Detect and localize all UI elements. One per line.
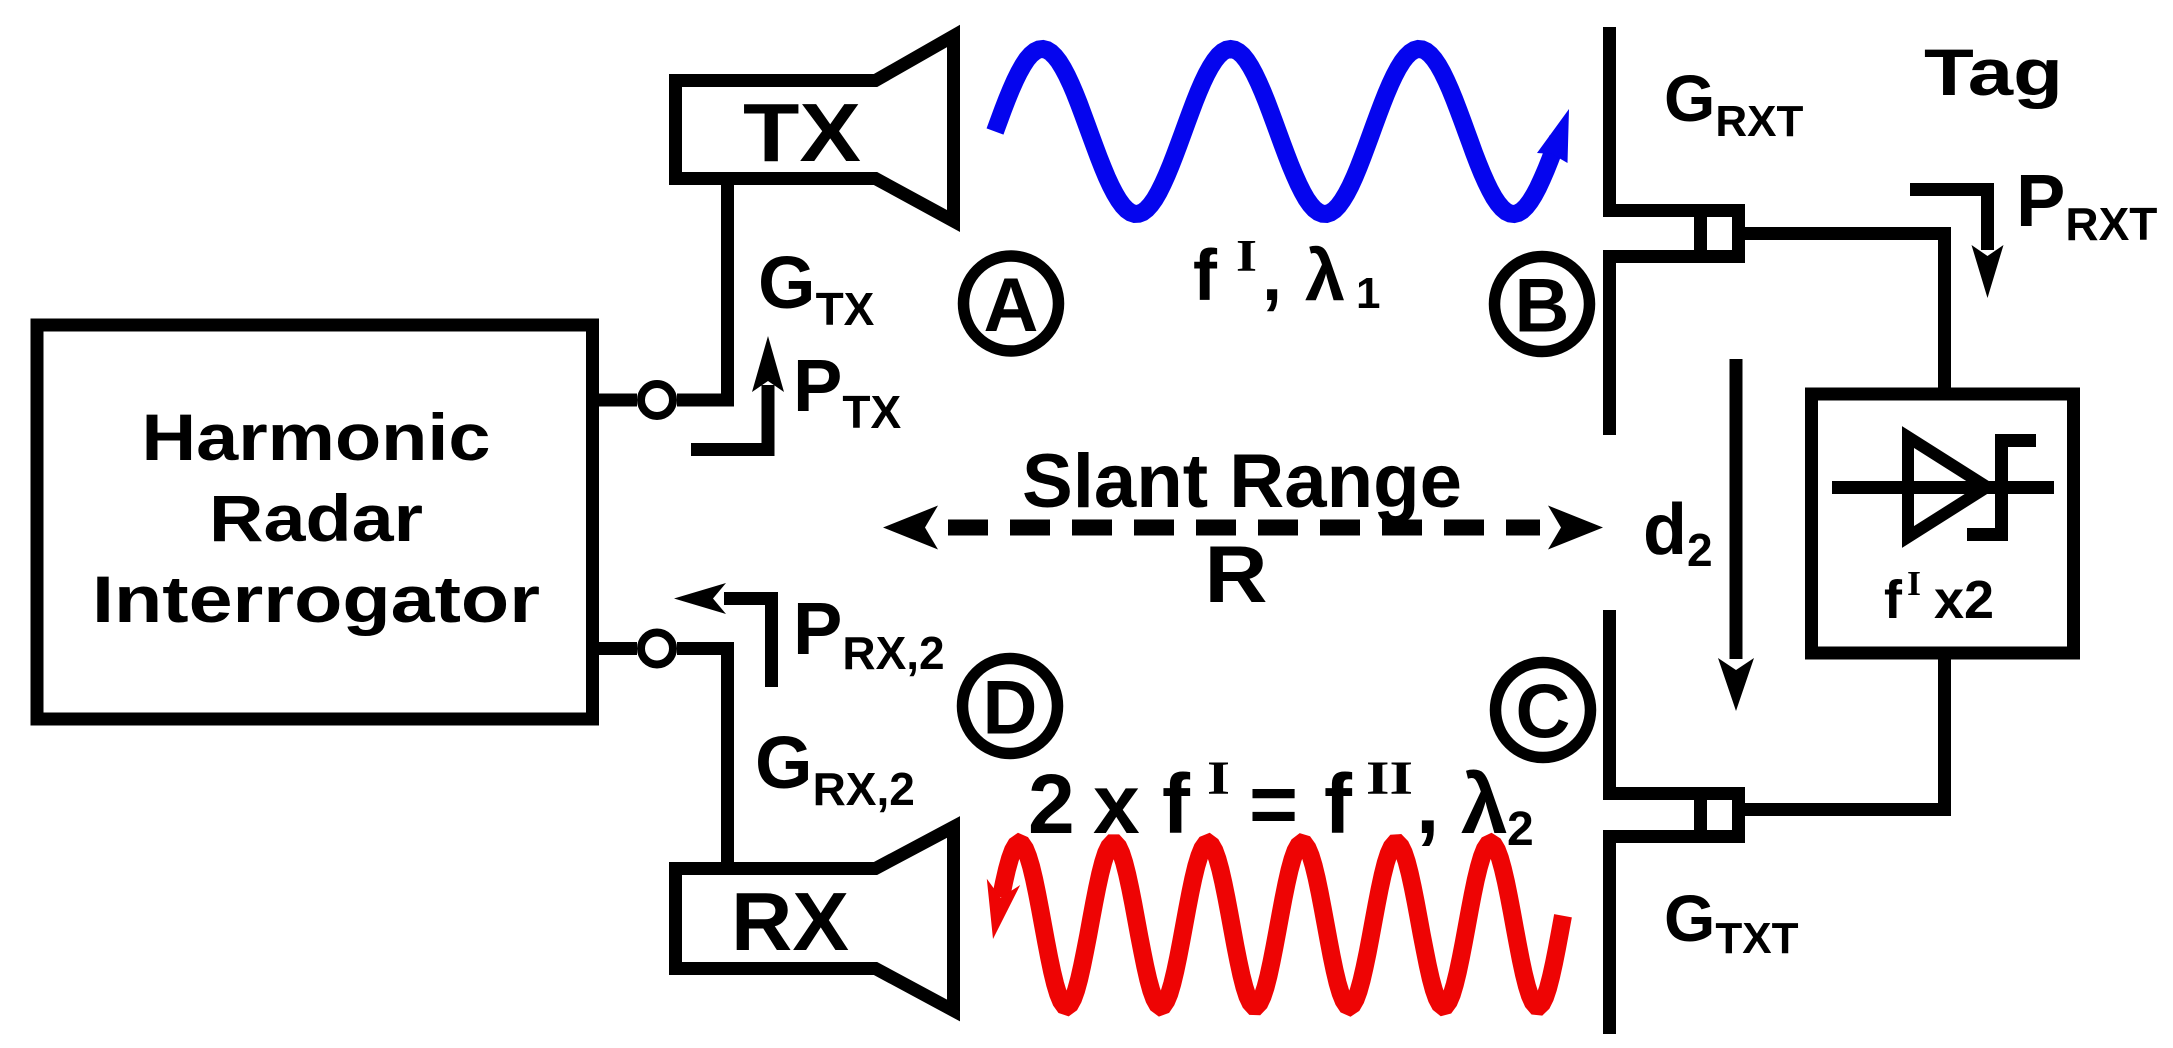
arrow P_TX (691, 336, 784, 450)
diode (1832, 434, 2054, 541)
svg-text:TX: TX (743, 86, 861, 179)
interrogator box (37, 325, 593, 719)
tag RX dipole (top antenna) (1603, 27, 1745, 435)
svg-text:Slant Range: Slant Range (1022, 439, 1462, 524)
wire tag box to bottom dipole (1745, 659, 1951, 816)
node D (963, 659, 1058, 754)
svg-text:C: C (1516, 670, 1571, 755)
svg-text:A: A (984, 263, 1039, 348)
svg-text:B: B (1515, 264, 1570, 349)
svg-text:RX: RX (731, 875, 849, 968)
slant range dashed arrow (883, 506, 1603, 550)
wire TX port (599, 179, 734, 407)
svg-text:Tag: Tag (1924, 35, 2063, 109)
arrow P_RX2 (674, 583, 772, 687)
node B (1495, 257, 1590, 352)
connector circle TX (641, 384, 673, 416)
blue wave f_I (995, 49, 1569, 214)
wire RX port (599, 642, 734, 863)
svg-text:D: D (983, 666, 1038, 751)
RX horn (676, 827, 954, 1011)
svg-text:Radar: Radar (209, 481, 423, 555)
TX horn (676, 36, 954, 221)
wire dipole to tag box (1745, 227, 1951, 388)
arrow d_2 (1718, 359, 1754, 711)
svg-text:fIx2: fIx2 (1884, 564, 1994, 630)
tag TX dipole (bottom antenna) (1603, 610, 1745, 1034)
red wave f_II (987, 843, 1563, 1007)
arrow P_RXT (1910, 190, 2004, 299)
connector circle RX (641, 633, 673, 665)
tag box (1812, 394, 2074, 653)
svg-text:Harmonic: Harmonic (142, 400, 491, 474)
svg-text:Interrogator: Interrogator (92, 562, 540, 636)
node C (1496, 663, 1591, 758)
node A (964, 256, 1059, 351)
svg-text:R: R (1205, 530, 1268, 620)
